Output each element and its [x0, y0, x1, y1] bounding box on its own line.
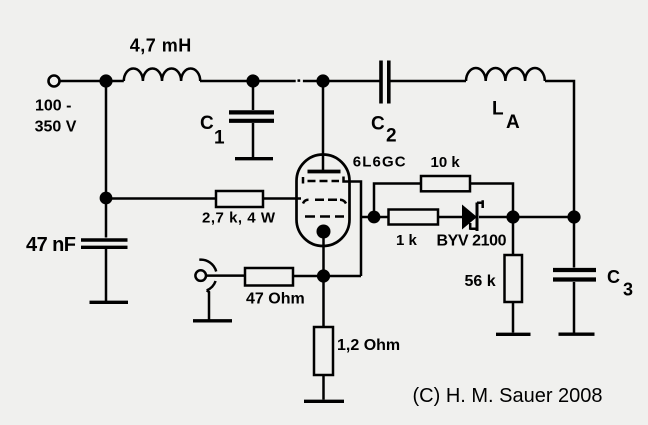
- node J1: [99, 74, 112, 87]
- svg-text:C: C: [200, 113, 214, 134]
- wire 10k branch: [374, 184, 421, 212]
- tube screen grid g2 dashes: [303, 177, 339, 184]
- wire shield to ground: [207, 290, 209, 319]
- wire gap dash: [298, 79, 301, 82]
- svg-text:47 nF: 47 nF: [26, 234, 76, 256]
- tube cathode: [317, 225, 331, 239]
- inductor LA: [466, 68, 545, 81]
- svg-text:350 V: 350 V: [35, 119, 77, 136]
- wire: [391, 80, 467, 83]
- svg-text:1: 1: [214, 128, 225, 149]
- resistor 10k: [421, 176, 470, 191]
- capacitor 47nF: [105, 198, 108, 238]
- ground: [304, 400, 344, 403]
- wire screen tap to node: [361, 216, 368, 219]
- wire: [60, 80, 124, 83]
- node junction dots: [99, 74, 580, 282]
- svg-text:C: C: [371, 114, 385, 135]
- wire: [303, 80, 380, 83]
- diode BYV2100: [462, 205, 477, 230]
- tube 6L6GC envelope: [297, 155, 350, 247]
- capacitor C1: [252, 87, 255, 110]
- wire screen grid to cathode line: [344, 177, 362, 277]
- svg-text:56 k: 56 k: [465, 273, 496, 290]
- svg-text:(C) H. M. Sauer 2008: (C) H. M. Sauer 2008: [413, 385, 603, 407]
- node J6: [368, 211, 381, 224]
- tube anode plate: [308, 170, 341, 174]
- node J8: [100, 192, 113, 205]
- svg-text:3: 3: [623, 280, 633, 300]
- capacitor C3: [573, 217, 576, 268]
- inductor L1 4,7 mH: [124, 69, 200, 82]
- wire cathode row: [293, 275, 361, 278]
- node J3: [316, 74, 329, 87]
- svg-text:2,7 k, 4 W: 2,7 k, 4 W: [202, 210, 276, 227]
- node J7: [317, 269, 330, 282]
- wire: [263, 197, 301, 200]
- terminal shield arc: [199, 260, 216, 291]
- wire: [438, 216, 462, 219]
- node J5: [506, 210, 519, 223]
- tube g3 dashes: [305, 215, 344, 218]
- tube control grid g1 dashes: [303, 200, 346, 204]
- resistor 56k: [512, 217, 515, 255]
- svg-text:100 -: 100 -: [35, 98, 71, 115]
- wire node to 1k: [380, 216, 389, 219]
- ground: [235, 157, 273, 160]
- svg-text:L: L: [492, 99, 504, 120]
- svg-text:4,7 mH: 4,7 mH: [130, 36, 192, 56]
- resistor 1,2 Ohm: [322, 282, 325, 327]
- resistor 2,7k 4W: [216, 191, 263, 207]
- wire: [206, 274, 245, 277]
- node J4: [567, 210, 580, 223]
- wire: [200, 80, 296, 83]
- node J2: [246, 74, 259, 87]
- wire diode to node: [479, 216, 574, 219]
- ground: [90, 301, 129, 304]
- ground: [193, 319, 232, 322]
- svg-text:2: 2: [386, 126, 397, 147]
- svg-text:1 k: 1 k: [396, 232, 418, 249]
- svg-text:BYV 2100: BYV 2100: [437, 233, 507, 250]
- wire 10k to node: [470, 184, 513, 212]
- wire left rail: [105, 81, 108, 198]
- svg-text:47 Ohm: 47 Ohm: [246, 291, 305, 308]
- svg-text:1,2 Ohm: 1,2 Ohm: [337, 337, 400, 354]
- svg-text:A: A: [506, 112, 520, 133]
- svg-text:C: C: [607, 267, 620, 287]
- svg-text:10 k: 10 k: [431, 154, 461, 171]
- wire cathode down: [322, 236, 325, 276]
- wire anode to top node: [322, 87, 325, 170]
- ground: [496, 333, 531, 336]
- wire right rail: [545, 81, 574, 217]
- resistor 47 Ohm: [245, 268, 293, 286]
- terminal HT input: [49, 76, 60, 87]
- svg-text:6L6GC: 6L6GC: [353, 153, 406, 170]
- capacitor C2: [381, 61, 389, 104]
- wire grid row: [106, 197, 216, 200]
- ground: [559, 333, 595, 336]
- resistor 1k: [389, 210, 439, 225]
- terminal drive input: [195, 270, 206, 281]
